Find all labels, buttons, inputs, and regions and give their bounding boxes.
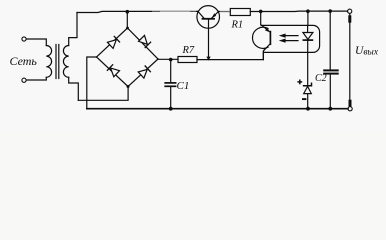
svg-text:Uвых: Uвых	[355, 45, 379, 58]
svg-text:С2: С2	[315, 73, 327, 84]
svg-text:С1: С1	[177, 80, 190, 92]
svg-text:R7: R7	[182, 45, 195, 56]
svg-text:R1: R1	[231, 20, 244, 31]
svg-text:Сеть: Сеть	[10, 54, 38, 68]
